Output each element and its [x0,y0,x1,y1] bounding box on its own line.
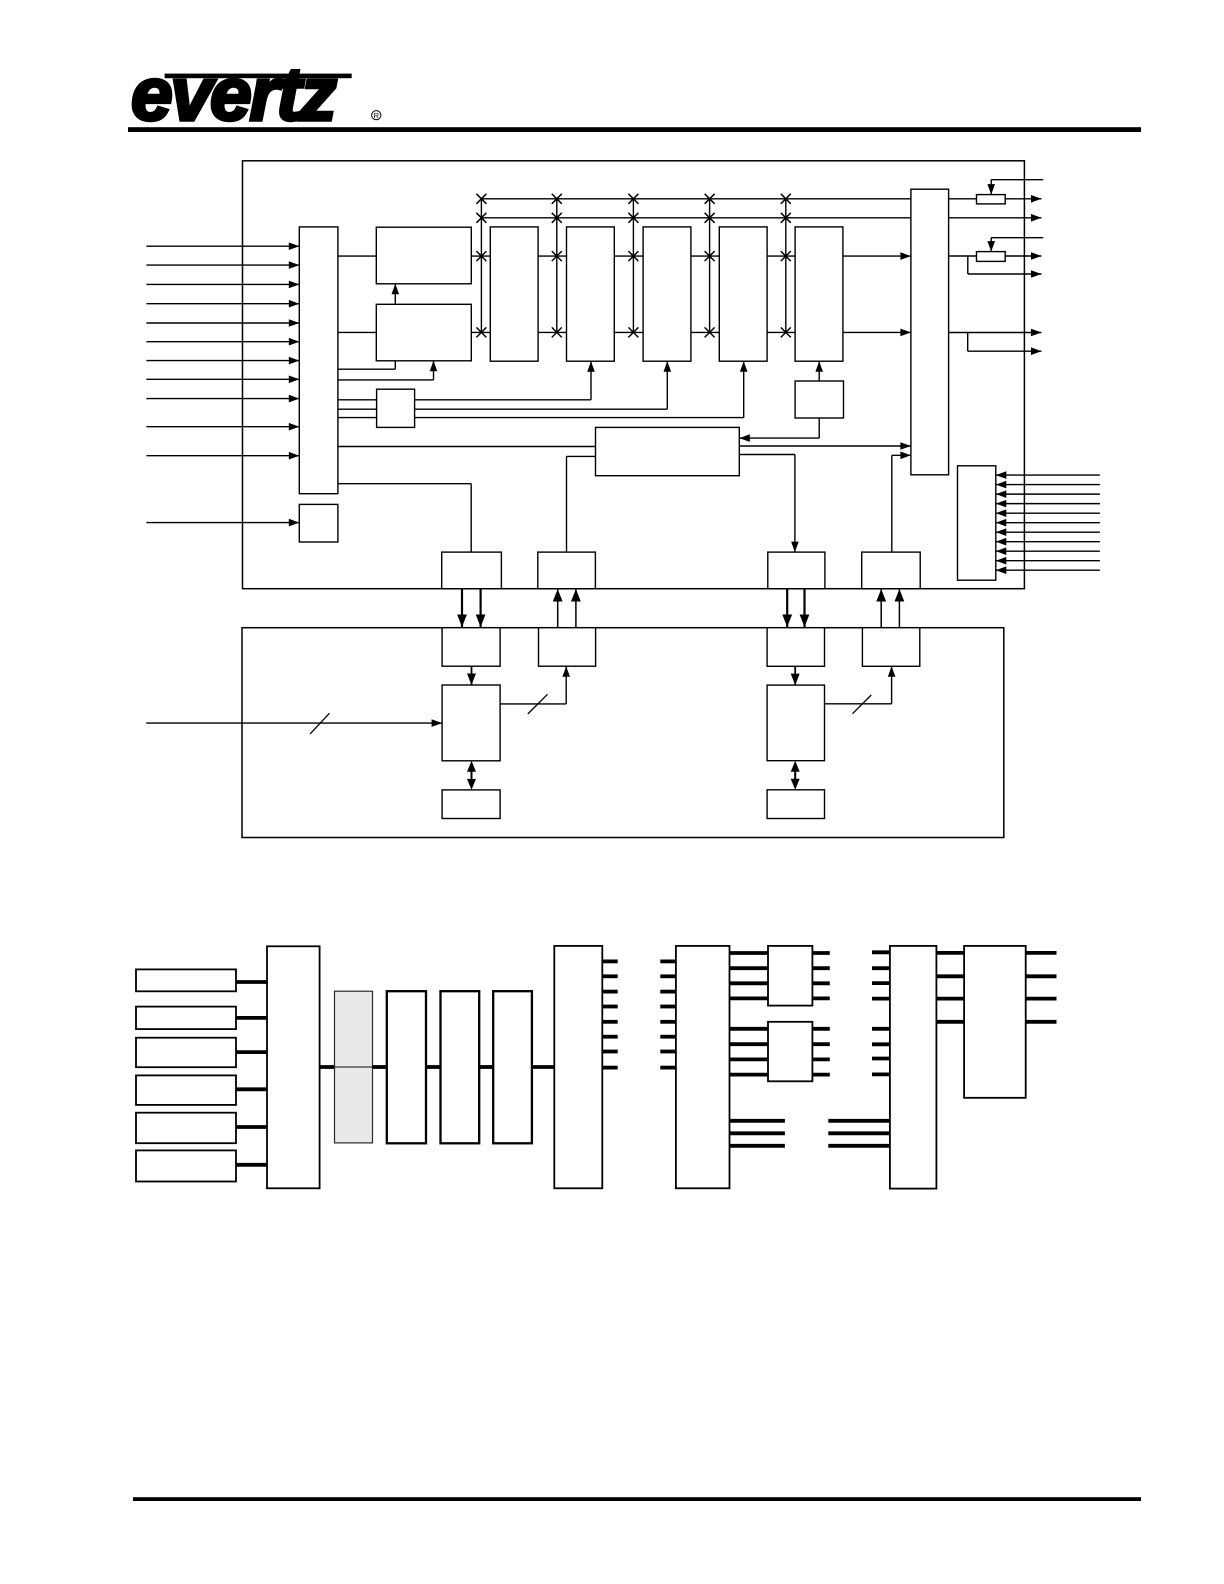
logo registered trademark symbol [372,111,381,120]
formatter box left stub 7 [872,1057,890,1061]
up arrow x=881.2 diagram2 to diagram1 [880,589,882,628]
bus width slash on F-D wire [853,695,872,714]
arrow row2 box to row1 box [394,284,396,305]
thick stub rect 1 to receiver box [236,980,268,984]
input bus wire into controller E [146,722,442,724]
demux box left stub 3 [660,990,676,994]
control wire into resistor 1 [991,179,1043,181]
interface box 2 [538,552,596,589]
small box 1 right stub 3 [812,981,829,985]
memory port box A [442,628,500,667]
formatter box left stub 5 [872,1027,890,1031]
diagram1 outer frame [243,161,1025,589]
thick wire gray box to white box 1 [373,1065,388,1069]
gray processing box [335,991,373,1143]
input connector rect 2 [136,1007,236,1030]
row1 output wire to output box [843,255,911,257]
white processing box 3 [493,991,532,1143]
up arrow x=899.4 diagram2 to diagram1 [898,589,900,628]
crosspoint X marks column 1 [476,194,486,204]
mux box right stub 3 [602,990,617,994]
input wire 11 into crossbar [146,455,299,457]
vertical processing box 5 [795,227,843,361]
input crossbar box [299,227,338,494]
crosspoint vertical 2 [556,199,558,333]
bus width slash on input wire [310,713,329,734]
triple bus right segment 1 [828,1119,890,1123]
wire bottom box 2 up to wide box [566,456,568,552]
memory controller box E [442,685,500,761]
row1 processing box [376,227,471,284]
vertical processing box 3 [643,227,691,361]
output arrow 4 branch [967,333,969,352]
wire wide box down to bottom box 3 [739,454,795,456]
thick stub rect 5 to receiver box [236,1125,268,1129]
wire crossbar to row2 box bottom (L-bend) [338,368,395,370]
down arrow x=462.0 diagram1 to diagram2 [461,589,463,627]
svg-text:R: R [374,111,380,120]
row2 chain wire segment 3 [614,331,643,333]
wire crossbar to bottom box 1 [338,483,471,485]
crosspoint vertical 3 [632,199,634,333]
connector input wire 9 [996,550,1100,552]
connector input wire 8 [996,541,1100,543]
thick wire demux to small box 1 line 3 [730,981,769,985]
thick wire formatter to output box line 1 [936,951,964,955]
formatter tall box [890,946,937,1189]
small box 2 right stub 4 [812,1073,829,1077]
memory controller box F [767,685,824,761]
GPI box [299,504,338,542]
connector input wire 10 [996,560,1100,562]
thick stub rect 3 to receiver box [236,1050,268,1054]
final output stub 4 [1026,1020,1057,1024]
gray box divider line [335,1066,373,1068]
crosspoint X marks column 3 [628,194,638,204]
bidirectional arrow E to memory G [471,764,473,787]
triple bus left segment 2 [730,1131,785,1135]
connector input wire 7 [996,531,1100,533]
white processing box 2 [441,991,480,1143]
mux tall box [554,946,602,1188]
footer rule [133,1497,1141,1501]
row2 chain wire segment 5 [767,331,795,333]
logo overbar [165,74,352,79]
input connector rect 4 [136,1075,236,1105]
svg-text:evertz: evertz [131,52,336,136]
up arrow x=557.7 diagram2 to diagram1 [557,589,559,628]
thick stub rect 4 to receiver box [236,1087,268,1091]
row1 chain wire segment 1 [471,255,490,257]
down arrow x=787.2 diagram1 to diagram2 [786,589,788,627]
demux box left stub 7 [660,1050,676,1054]
thick wire white box 2 to 3 [479,1065,494,1069]
row1 chain wire segment 3 [614,255,643,257]
final output stub 2 [1026,974,1057,978]
thick wire formatter to output box line 2 [936,974,964,978]
wire driver box to wide box [818,418,820,438]
crosspoint vertical 5 [785,199,787,333]
vertical processing box 2 [567,227,615,361]
row2 chain wire segment 4 [691,331,719,333]
demux box left stub 1 [660,960,676,964]
arrow box C to controller F [794,666,796,685]
small box 1 right stub 1 [812,951,829,955]
connector input wire 6 [996,522,1100,524]
input wire 10 into crossbar [146,426,299,428]
final output stub 1 [1026,951,1057,955]
demux tall box [676,946,730,1188]
final output stub 3 [1026,997,1057,1001]
small output box 1 [768,946,812,1006]
interface box 3 [768,552,825,589]
bidirectional arrow F to memory H [794,764,796,787]
small box 2 right stub 3 [812,1058,829,1062]
thick wire demux to small box 2 line 1 [730,1027,769,1031]
output wire 3 via trim resistor [949,255,977,257]
control wire B from crossbar to vertical box 3 [338,408,667,410]
interface box 1 [442,552,502,589]
thick wire formatter to output box line 4 [936,1020,964,1024]
up arrow x=575.9 diagram2 to diagram1 [575,589,577,628]
triple bus right segment 2 [828,1131,890,1135]
down arrow x=804.5 diagram1 to diagram2 [803,589,805,627]
input connector rect 5 [136,1113,236,1144]
driver box under vertical box 5 [795,381,843,418]
wire crossbar to row2 box [338,331,376,333]
small output box 2 [768,1022,812,1082]
memory port box D [862,628,919,667]
triple bus left segment 1 [730,1119,785,1123]
formatter box left stub 3 [872,981,890,985]
input wire 6 into crossbar [146,341,299,343]
input wire 8 into crossbar [146,378,299,380]
input wire 5 into crossbar [146,322,299,324]
output arrow 2 [949,217,1042,219]
thick wire demux to small box 1 line 2 [730,966,769,970]
demux box left stub 6 [660,1035,676,1039]
connector input wire 5 [996,512,1100,514]
control wire C from crossbar to vertical box 4 [338,417,744,419]
row2 output wire to output box [843,331,911,333]
formatter box left stub 2 [872,966,890,970]
output wire 1 via trim resistor [949,198,977,200]
bus line 2 (second monitor bus) [481,217,911,219]
control wire A from crossbar to vertical box 2 [338,399,591,401]
formatter box left stub 1 [872,950,890,954]
demux box left stub 2 [660,974,676,978]
bus wire controller F to box D [825,703,892,705]
crosspoint X marks column 5 [781,194,791,204]
wire crossbar to row1 box [338,255,376,257]
triple bus left segment 3 [730,1144,785,1148]
arrow box A to controller E [471,666,473,685]
crosspoint X marks column 2 [552,194,562,204]
arrow wide box to output box [739,445,911,447]
diagram2 outer frame [242,628,1004,838]
formatter box left stub 8 [872,1073,890,1077]
thick wire demux to small box 1 line 4 [730,997,769,1001]
mux box right stub 4 [602,1005,617,1009]
header rule [128,127,1141,132]
wire crossbar to row2 box bottom arrow [338,379,434,381]
triple bus right segment 3 [828,1144,890,1148]
memory box H [767,790,824,819]
output routing box [911,189,949,475]
connector box [958,466,996,580]
interface box 4 [862,552,921,589]
wire bottom box 4 up to output box [891,455,893,552]
connector input wire 2 [996,484,1100,486]
input connector rect 6 [136,1150,236,1181]
mux box right stub 7 [602,1050,617,1054]
output arrow 3 branch [967,256,969,274]
input wire 1 into crossbar [146,245,299,247]
thick wire demux to small box 2 line 2 [730,1042,769,1046]
input wire 12 into GPI box [146,522,299,524]
small box 1 right stub 2 [812,966,829,970]
bus line 1 (top monitor bus) [481,198,911,200]
formatter box left stub 4 [872,997,890,1001]
thick stub rect 2 to receiver box [236,1016,268,1020]
small box 1 right stub 4 [812,997,829,1001]
input wire 7 into crossbar [146,360,299,362]
trim resistor box 2 [977,252,1006,262]
thick stub rect 6 to receiver box [236,1163,268,1167]
trim resistor box 1 [977,195,1006,204]
row1 chain wire segment 4 [691,255,719,257]
memory port box B [539,628,596,667]
input wire 3 into crossbar [146,283,299,285]
mux box right stub 6 [602,1035,617,1039]
mux box right stub 1 [602,960,617,964]
output arrow 4 [949,332,1042,334]
small box 2 right stub 1 [812,1027,829,1031]
thick wire demux to small box 2 line 4 [730,1073,769,1077]
bus width slash on E-B wire [528,694,548,714]
small box 2 right stub 2 [812,1042,829,1046]
formatter box left stub 6 [872,1042,890,1046]
row2 chain wire segment 1 [471,331,490,333]
row2 processing box [376,304,471,361]
demux box left stub 8 [660,1066,676,1070]
control wire into resistor 2 [991,237,1043,239]
sync small box [377,389,415,427]
mux box right stub 2 [602,974,617,978]
row1 chain wire segment 2 [538,255,566,257]
thick wire demux to small box 2 line 3 [730,1058,769,1062]
row2 chain wire segment 2 [538,331,566,333]
mux box right stub 8 [602,1066,617,1070]
connector input wire 4 [996,503,1100,505]
bus wire controller E to box B [500,703,566,705]
demux box left stub 5 [660,1020,676,1024]
connector input wire 11 [996,569,1100,571]
input wire 4 into crossbar [146,303,299,305]
input wire 9 into crossbar [146,398,299,400]
crosspoint vertical 1 [480,199,482,333]
white processing box 1 [387,991,426,1143]
vertical processing box 1 [490,227,538,361]
connector input wire 1 [996,474,1100,476]
demux box left stub 4 [660,1005,676,1009]
vertical processing box 4 [719,227,767,361]
output arrow 3 [1005,255,1041,257]
memory box G [442,790,500,819]
thick wire white box 3 to mux box [532,1065,555,1069]
wire crossbar to wide box [338,446,596,448]
thick wire formatter to output box line 3 [936,997,964,1001]
input wire 2 into crossbar [146,264,299,266]
thick wire white box 1 to 2 [426,1065,441,1069]
crosspoint X marks column 4 [705,194,715,204]
connector input wire 3 [996,493,1100,495]
mux box right stub 5 [602,1020,617,1024]
input connector rect 1 [136,969,236,991]
thick wire demux to small box 1 line 1 [730,951,769,955]
row1 chain wire segment 5 [767,255,795,257]
memory port box C [767,628,824,667]
arrow driver box to vertical box 5 [818,361,820,381]
thick wire receiver to gray box [320,1065,336,1069]
receiver tall box [267,946,320,1188]
output arrow 1 [1005,198,1041,200]
crosspoint vertical 4 [709,199,711,333]
input connector rect 3 [136,1038,236,1068]
wide control box [596,427,740,475]
final output box [964,946,1026,1098]
down arrow x=480.6 diagram1 to diagram2 [480,589,482,627]
